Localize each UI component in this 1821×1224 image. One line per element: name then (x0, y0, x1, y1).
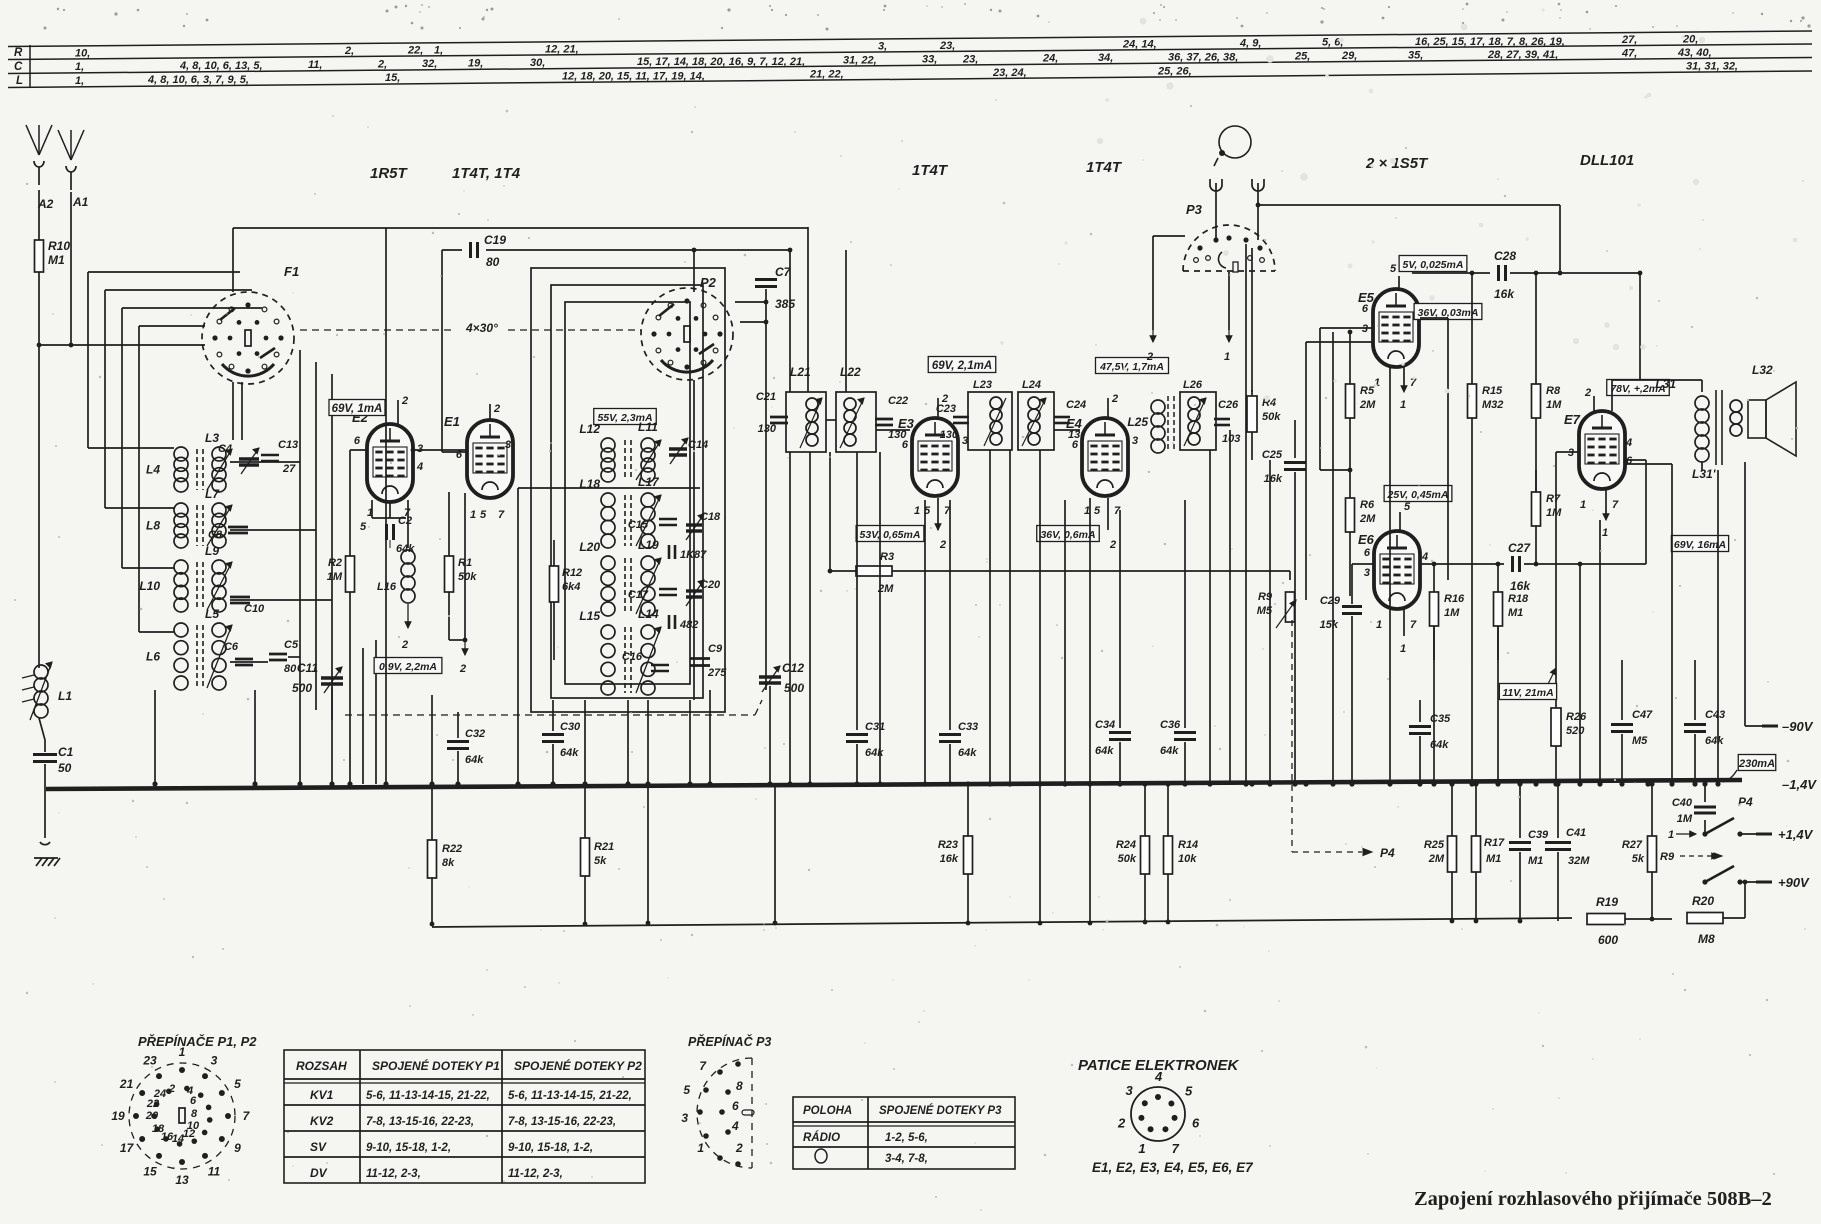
svg-text:80: 80 (284, 663, 297, 675)
svg-text:3: 3 (417, 443, 423, 455)
svg-text:C10: C10 (244, 603, 265, 615)
svg-text:L10: L10 (139, 579, 160, 593)
svg-text:23,: 23, (939, 40, 955, 52)
svg-text:29,: 29, (1341, 50, 1357, 62)
svg-text:C19: C19 (484, 233, 506, 247)
svg-text:20: 20 (145, 1110, 159, 1122)
svg-text:A1: A1 (72, 195, 89, 209)
svg-text:6: 6 (1626, 455, 1633, 467)
svg-text:R23: R23 (938, 839, 958, 851)
svg-text:C8: C8 (208, 529, 223, 541)
svg-text:4×30°: 4×30° (465, 321, 498, 335)
svg-text:130: 130 (758, 423, 777, 435)
svg-text:5: 5 (360, 521, 367, 533)
svg-text:R19: R19 (1596, 895, 1618, 909)
svg-text:1: 1 (697, 1141, 704, 1155)
svg-text:6: 6 (1192, 1116, 1200, 1131)
svg-text:103: 103 (1222, 433, 1240, 445)
svg-text:L31': L31' (1692, 467, 1717, 481)
svg-text:1: 1 (1580, 499, 1586, 511)
svg-text:2: 2 (1146, 351, 1153, 363)
svg-text:C13: C13 (278, 439, 298, 451)
svg-text:2,: 2, (344, 45, 354, 57)
svg-text:64k: 64k (1430, 739, 1449, 751)
svg-text:1: 1 (470, 509, 476, 521)
svg-text:500: 500 (292, 681, 312, 695)
svg-text:L11: L11 (638, 420, 658, 434)
svg-text:15k: 15k (1320, 619, 1339, 631)
svg-text:C11: C11 (297, 661, 318, 675)
svg-text:80: 80 (486, 255, 500, 269)
svg-text:1R5T: 1R5T (370, 165, 409, 182)
svg-text:1M: 1M (327, 571, 343, 583)
svg-text:1: 1 (914, 505, 920, 517)
svg-text:R14: R14 (1178, 839, 1198, 851)
svg-text:2: 2 (1117, 1116, 1126, 1131)
svg-text:4, 8, 10, 6, 13, 5,: 4, 8, 10, 6, 13, 5, (179, 60, 263, 72)
svg-text:5: 5 (1094, 505, 1101, 517)
svg-text:C21: C21 (756, 391, 776, 403)
svg-text:21, 22,: 21, 22, (809, 68, 844, 80)
svg-text:19,: 19, (468, 58, 483, 70)
svg-text:5: 5 (480, 509, 487, 521)
svg-text:3: 3 (1364, 567, 1370, 579)
svg-text:47,: 47, (1621, 48, 1637, 60)
svg-text:DV: DV (310, 1166, 328, 1180)
svg-text:PŘEPÍNAČE P1, P2: PŘEPÍNAČE P1, P2 (138, 1034, 257, 1049)
svg-text:DLL101: DLL101 (1580, 152, 1634, 169)
svg-text:R5: R5 (1360, 385, 1375, 397)
svg-text:L20: L20 (579, 540, 600, 554)
svg-text:6k4: 6k4 (562, 581, 580, 593)
svg-text:9-10, 15-18, 1-2,: 9-10, 15-18, 1-2, (508, 1142, 593, 1154)
svg-text:43, 40,: 43, 40, (1677, 47, 1712, 59)
svg-text:C22: C22 (888, 395, 908, 407)
svg-text:5: 5 (234, 1077, 241, 1091)
svg-text:3: 3 (1132, 435, 1138, 447)
svg-text:L9: L9 (205, 544, 219, 558)
svg-text:23, 24,: 23, 24, (992, 67, 1027, 79)
svg-text:R17: R17 (1484, 837, 1505, 849)
svg-text:KV1: KV1 (310, 1088, 334, 1102)
svg-text:4: 4 (1625, 437, 1632, 449)
svg-text:6: 6 (732, 1099, 739, 1113)
svg-text:35,: 35, (1408, 50, 1423, 62)
svg-text:1: 1 (1376, 619, 1382, 631)
svg-text:1M: 1M (1546, 507, 1562, 519)
svg-text:30,: 30, (530, 57, 545, 69)
svg-text:3: 3 (211, 1054, 218, 1068)
svg-text:2: 2 (735, 1141, 743, 1155)
svg-text:L31: L31 (1655, 377, 1676, 391)
svg-text:15: 15 (143, 1164, 157, 1178)
svg-text:25, 26,: 25, 26, (1157, 65, 1192, 77)
svg-text:31, 31, 32,: 31, 31, 32, (1686, 61, 1738, 73)
svg-text:C30: C30 (560, 721, 581, 733)
svg-text:16, 25, 15, 17, 18, 7, 8, 26: 16, 25, 15, 17, 18, 7, 8, 26, 19, (1415, 36, 1565, 48)
svg-text:M8: M8 (1698, 932, 1715, 946)
svg-text:9-10, 15-18, 1-2,: 9-10, 15-18, 1-2, (366, 1142, 451, 1154)
svg-text:2: 2 (939, 539, 946, 551)
svg-text:L17: L17 (638, 475, 660, 489)
svg-text:2: 2 (401, 395, 408, 407)
svg-text:10k: 10k (1178, 853, 1197, 865)
svg-text:R20: R20 (1692, 894, 1714, 908)
svg-text:8: 8 (736, 1079, 743, 1093)
svg-text:L25: L25 (1127, 415, 1148, 429)
svg-text:50k: 50k (1118, 853, 1137, 865)
svg-text:C43: C43 (1705, 709, 1725, 721)
svg-text:L22: L22 (840, 365, 861, 379)
svg-text:+90V: +90V (1778, 875, 1810, 890)
svg-text:C5: C5 (284, 639, 299, 651)
svg-text:1: 1 (1400, 643, 1406, 655)
svg-text:6: 6 (1364, 547, 1371, 559)
svg-text:R27: R27 (1622, 839, 1643, 851)
svg-text:21: 21 (119, 1077, 134, 1091)
svg-text:8: 8 (191, 1108, 198, 1120)
svg-text:64k: 64k (1160, 745, 1179, 757)
svg-text:4, 8, 10, 6, 3, 7, 9, 5,: 4, 8, 10, 6, 3, 7, 9, 5, (147, 74, 249, 86)
svg-text:16k: 16k (1264, 473, 1283, 485)
svg-text:3: 3 (1125, 1083, 1133, 1098)
svg-text:R26: R26 (1566, 711, 1587, 723)
svg-text:SV: SV (310, 1140, 327, 1154)
svg-text:C26: C26 (1218, 399, 1239, 411)
svg-text:385: 385 (775, 297, 795, 311)
svg-text:33,: 33, (922, 54, 937, 66)
svg-text:L8: L8 (146, 519, 160, 533)
svg-text:1,: 1, (75, 61, 84, 73)
svg-text:L32: L32 (1752, 363, 1773, 377)
svg-text:10,: 10, (75, 47, 90, 59)
svg-text:L14: L14 (638, 607, 659, 621)
svg-text:R24: R24 (1116, 839, 1136, 851)
svg-text:7-8, 13-15-16, 22-23,: 7-8, 13-15-16, 22-23, (366, 1116, 474, 1128)
svg-text:C32: C32 (465, 728, 485, 740)
svg-text:6: 6 (1072, 439, 1079, 451)
svg-text:1: 1 (179, 1045, 186, 1059)
svg-text:R7: R7 (1546, 493, 1561, 505)
svg-text:22: 22 (146, 1098, 159, 1110)
svg-text:1: 1 (1668, 829, 1674, 841)
svg-text:16k: 16k (940, 853, 959, 865)
svg-text:C41: C41 (1566, 827, 1586, 839)
svg-text:POLOHA: POLOHA (803, 1105, 852, 1117)
svg-text:L16: L16 (377, 581, 397, 593)
svg-text:520: 520 (1566, 725, 1585, 737)
svg-text:KV2: KV2 (310, 1114, 334, 1128)
svg-text:ROZSAH: ROZSAH (296, 1059, 347, 1073)
svg-text:C16: C16 (622, 651, 643, 663)
svg-text:C27: C27 (1508, 541, 1531, 555)
svg-text:E1, E2, E3, E4, E5, E6, E7: E1, E2, E3, E4, E5, E6, E7 (1092, 1160, 1254, 1175)
svg-text:R8: R8 (1546, 385, 1561, 397)
svg-text:C7: C7 (775, 265, 792, 279)
svg-text:7: 7 (1410, 619, 1417, 631)
svg-text:1T4T, 1T4: 1T4T, 1T4 (452, 165, 521, 182)
svg-text:1: 1 (1400, 399, 1406, 411)
svg-text:5: 5 (1185, 1084, 1193, 1099)
svg-text:500: 500 (784, 681, 804, 695)
svg-text:5: 5 (1404, 501, 1411, 513)
svg-text:1M: 1M (1546, 399, 1562, 411)
svg-text:C1: C1 (58, 745, 74, 759)
svg-text:64k: 64k (1705, 735, 1724, 747)
svg-text:SPOJENÉ DOTEKY P1: SPOJENÉ DOTEKY P1 (372, 1058, 500, 1073)
svg-text:E6: E6 (1358, 532, 1375, 547)
svg-text:6: 6 (354, 435, 361, 447)
svg-text:64k: 64k (396, 543, 415, 555)
svg-text:2 × 1S5T: 2 × 1S5T (1365, 155, 1429, 172)
svg-text:69V, 2,1mA: 69V, 2,1mA (932, 360, 992, 372)
svg-text:22,: 22, (407, 45, 423, 57)
svg-text:–90V: –90V (1782, 719, 1814, 734)
svg-text:12: 12 (183, 1128, 195, 1140)
svg-text:M32: M32 (1482, 399, 1503, 411)
svg-text:1,: 1, (75, 75, 84, 87)
svg-text:1: 1 (1602, 527, 1608, 539)
svg-text:F1: F1 (284, 264, 299, 279)
svg-text:64k: 64k (560, 747, 579, 759)
svg-text:C29: C29 (1320, 595, 1341, 607)
svg-text:R2: R2 (328, 557, 342, 569)
svg-text:4: 4 (731, 1119, 739, 1133)
svg-text:11-12, 2-3: 11-12, 2-3, (508, 1168, 563, 1180)
svg-text:3: 3 (1362, 323, 1368, 335)
svg-text:L: L (16, 75, 23, 87)
svg-text:SPOJENÉ DOTEKY P3: SPOJENÉ DOTEKY P3 (879, 1104, 1002, 1117)
svg-text:7-8, 13-15-16, 22-23,: 7-8, 13-15-16, 22-23, (508, 1116, 616, 1128)
svg-text:1-2, 5-6,: 1-2, 5-6, (885, 1132, 928, 1144)
svg-text:275: 275 (707, 667, 727, 679)
svg-text:C4: C4 (218, 443, 232, 455)
svg-text:L12: L12 (579, 422, 600, 436)
svg-text:13: 13 (175, 1173, 189, 1187)
svg-text:P3: P3 (1186, 202, 1203, 217)
svg-text:5: 5 (1390, 263, 1397, 275)
svg-text:130: 130 (940, 429, 959, 441)
svg-text:C23: C23 (936, 403, 956, 415)
svg-text:3: 3 (681, 1111, 688, 1125)
svg-text:50k: 50k (458, 571, 477, 583)
svg-text:P4: P4 (1380, 846, 1395, 860)
svg-text:15, 17, 14, 18, 20, 16, 9, 7,: 15, 17, 14, 18, 20, 16, 9, 7, 12, 21, (637, 56, 805, 68)
svg-text:3,: 3, (878, 41, 887, 53)
svg-text:2: 2 (493, 403, 500, 415)
svg-text:C31: C31 (865, 721, 885, 733)
svg-text:P4: P4 (1738, 795, 1753, 809)
svg-text:64k: 64k (1095, 745, 1114, 757)
svg-text:C12: C12 (782, 661, 804, 675)
svg-text:69V, 1mA: 69V, 1mA (332, 403, 383, 415)
svg-text:C40: C40 (1672, 797, 1693, 809)
svg-text:28, 27, 39, 41,: 28, 27, 39, 41, (1487, 49, 1558, 61)
svg-text:27: 27 (282, 463, 296, 475)
svg-text:12, 21,: 12, 21, (545, 43, 579, 55)
svg-text:E1: E1 (444, 414, 460, 429)
svg-text:R9: R9 (1660, 851, 1675, 863)
svg-text:5V, 0,025mA: 5V, 0,025mA (1403, 259, 1464, 271)
svg-text:5-6, 11-13-14-15, 21-22,: 5-6, 11-13-14-15, 21-22, (366, 1090, 490, 1102)
svg-text:5-6, 11-13-14-15, 21-22,: 5-6, 11-13-14-15, 21-22, (508, 1090, 632, 1102)
svg-text:6: 6 (1362, 303, 1369, 315)
svg-text:L1: L1 (58, 689, 72, 703)
svg-text:1T4T: 1T4T (1086, 159, 1123, 176)
svg-text:4, 9,: 4, 9, (1239, 37, 1261, 49)
svg-text:230mA: 230mA (1738, 758, 1775, 770)
svg-text:M1: M1 (1508, 607, 1523, 619)
svg-text:1T4T: 1T4T (912, 162, 949, 179)
svg-text:R21: R21 (594, 841, 614, 853)
svg-text:5: 5 (683, 1083, 690, 1097)
svg-text:L4: L4 (146, 463, 160, 477)
svg-text:2: 2 (1584, 387, 1591, 399)
svg-text:27,: 27, (1621, 34, 1637, 46)
svg-text:R6: R6 (1360, 499, 1375, 511)
svg-text:R: R (14, 47, 23, 59)
svg-text:L23: L23 (973, 379, 992, 391)
svg-text:E7: E7 (1564, 412, 1581, 427)
svg-text:25,: 25, (1294, 50, 1310, 62)
svg-text:16k: 16k (1510, 579, 1531, 593)
svg-text:5k: 5k (594, 855, 607, 867)
svg-text:M1: M1 (1528, 855, 1543, 867)
svg-text:C9: C9 (708, 643, 723, 655)
svg-text:C15: C15 (628, 519, 649, 531)
svg-text:R3: R3 (880, 551, 894, 563)
svg-text:4: 4 (1421, 551, 1428, 563)
svg-text:RÁDIO: RÁDIO (803, 1131, 840, 1144)
svg-text:C18: C18 (700, 511, 721, 523)
svg-text:24,: 24, (1042, 53, 1058, 65)
svg-text:32,: 32, (422, 58, 437, 70)
svg-text:C: C (14, 61, 23, 73)
svg-text:11: 11 (208, 1164, 221, 1178)
svg-text:482: 482 (679, 619, 698, 631)
svg-text:R22: R22 (442, 843, 462, 855)
svg-text:53V, 0,65mA: 53V, 0,65mA (860, 529, 921, 541)
svg-text:L15: L15 (579, 609, 600, 623)
svg-text:M1: M1 (48, 253, 65, 267)
svg-text:12, 18, 20, 15, 11, 17, 19, 14: 12, 18, 20, 15, 11, 17, 19, 14, (562, 71, 705, 83)
svg-text:+1,4V: +1,4V (1778, 827, 1814, 842)
svg-text:SPOJENÉ DOTEKY P2: SPOJENÉ DOTEKY P2 (514, 1058, 642, 1073)
svg-text:11V, 21mA: 11V, 21mA (1502, 687, 1553, 699)
svg-text:15,: 15, (385, 72, 400, 84)
svg-text:23,: 23, (962, 53, 978, 65)
svg-text:2M: 2M (1359, 399, 1376, 411)
svg-text:7: 7 (1172, 1141, 1180, 1156)
svg-text:1: 1 (1138, 1141, 1145, 1156)
svg-text:20,: 20, (1682, 34, 1698, 46)
svg-text:R25: R25 (1424, 839, 1445, 851)
svg-text:C14: C14 (688, 439, 708, 451)
svg-text:2,: 2, (377, 58, 387, 70)
svg-text:PŘEPÍNAČ P3: PŘEPÍNAČ P3 (688, 1034, 771, 1049)
svg-text:600: 600 (1598, 933, 1618, 947)
svg-text:19: 19 (111, 1109, 125, 1123)
svg-text:50k: 50k (1262, 411, 1281, 423)
svg-text:L24: L24 (1022, 379, 1041, 391)
svg-text:L6: L6 (146, 650, 160, 664)
svg-text:C25: C25 (1262, 449, 1283, 461)
svg-text:C20: C20 (700, 579, 721, 591)
svg-text:2M: 2M (1428, 853, 1445, 865)
svg-text:C6: C6 (224, 641, 239, 653)
svg-text:R10: R10 (48, 239, 70, 253)
svg-text:1M: 1M (1444, 607, 1460, 619)
svg-text:C36: C36 (1160, 719, 1181, 731)
svg-text:2M: 2M (1359, 513, 1376, 525)
svg-text:C34: C34 (1095, 719, 1115, 731)
svg-text:C39: C39 (1528, 829, 1549, 841)
svg-text:C28: C28 (1494, 249, 1516, 263)
svg-text:2: 2 (401, 639, 408, 651)
svg-text:1: 1 (1224, 351, 1230, 363)
svg-text:1M: 1M (1677, 813, 1693, 825)
svg-text:7: 7 (498, 509, 505, 521)
svg-text:4: 4 (1154, 1069, 1163, 1084)
svg-text:5k: 5k (1632, 853, 1645, 865)
svg-text:34,: 34, (1098, 52, 1113, 64)
svg-text:17: 17 (120, 1141, 135, 1155)
svg-text:8k: 8k (442, 857, 455, 869)
svg-text:L5: L5 (205, 607, 219, 621)
svg-text:11-12, 2-: 11-12, 2-3, (366, 1168, 421, 1180)
svg-text:3: 3 (1568, 447, 1574, 459)
svg-text:4: 4 (416, 461, 423, 473)
svg-text:50: 50 (58, 761, 72, 775)
svg-text:L21: L21 (790, 365, 811, 379)
svg-text:3: 3 (505, 439, 511, 451)
svg-text:C17: C17 (628, 589, 649, 601)
svg-text:–1,4V: –1,4V (1782, 777, 1817, 792)
svg-text:2: 2 (168, 1083, 175, 1095)
svg-text:2: 2 (1109, 539, 1116, 551)
svg-text:2: 2 (459, 663, 466, 675)
svg-text:24, 14,: 24, 14, (1122, 38, 1157, 50)
svg-text:L19: L19 (638, 538, 659, 552)
svg-text:3-4, 7-8,: 3-4, 7-8, (885, 1153, 928, 1165)
svg-text:E3: E3 (898, 416, 915, 431)
svg-text:16k: 16k (1494, 287, 1515, 301)
svg-text:C47: C47 (1632, 709, 1653, 721)
svg-text:R16: R16 (1444, 593, 1465, 605)
svg-text:Zapojení rozhlasového přijímač: Zapojení rozhlasového přijímače 508B–2 (1414, 1188, 1772, 1210)
svg-text:25V, 0,45mA: 25V, 0,45mA (1387, 489, 1449, 501)
svg-text:64k: 64k (865, 747, 884, 759)
svg-text:11,: 11, (308, 59, 322, 71)
svg-text:2: 2 (1111, 393, 1118, 405)
svg-text:31, 22,: 31, 22, (843, 54, 877, 66)
svg-text:L26: L26 (1183, 379, 1203, 391)
svg-text:6: 6 (902, 439, 909, 451)
svg-text:9: 9 (234, 1141, 241, 1155)
svg-text:E4: E4 (1066, 416, 1083, 431)
svg-text:36, 37, 26, 38,: 36, 37, 26, 38, (1168, 52, 1238, 64)
svg-text:64k: 64k (958, 747, 977, 759)
svg-text:C24: C24 (1066, 399, 1086, 411)
svg-text:C2: C2 (398, 515, 412, 527)
svg-text:6: 6 (190, 1095, 197, 1107)
svg-text:R12: R12 (562, 567, 582, 579)
svg-text:47,5V, 1,7mA: 47,5V, 1,7mA (1099, 361, 1164, 373)
svg-text:L18: L18 (579, 477, 600, 491)
svg-text:C33: C33 (958, 721, 978, 733)
svg-text:R18: R18 (1508, 593, 1529, 605)
svg-text:23: 23 (142, 1054, 157, 1068)
